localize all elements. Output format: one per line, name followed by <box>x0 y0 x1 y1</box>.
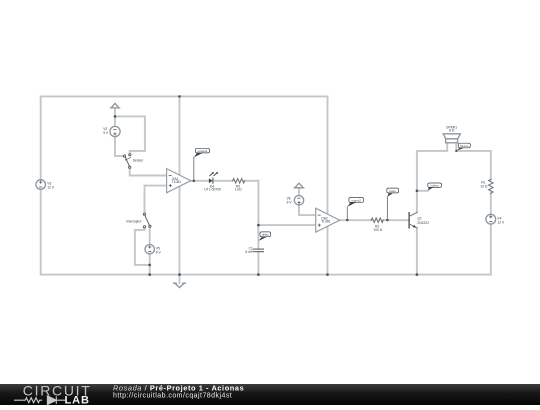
wire node A loop to sensor throw <box>115 116 145 153</box>
junction delay node <box>257 224 260 227</box>
LED D4 <box>209 172 218 183</box>
wire sensor common to OA1 minus input <box>130 168 167 175</box>
wire VCC2 stem <box>298 188 300 196</box>
wire Q1 emitter down to bottom rail <box>416 228 418 275</box>
wire R2 to Q1 base <box>383 219 409 221</box>
svg-text:10 Ω: 10 Ω <box>480 184 488 188</box>
wire V5 bottom <box>149 254 151 275</box>
svg-text:1 kΩ: 1 kΩ <box>235 188 242 192</box>
ground <box>174 283 186 287</box>
svg-text:LAB: LAB <box>65 395 90 405</box>
voltage source V3 12V <box>36 180 46 190</box>
wire V2 bottom to sensor <box>115 137 123 156</box>
svg-text:Q1: Q1 <box>417 217 422 221</box>
junction V5 bypass <box>148 264 151 267</box>
wire delay vertical upper <box>257 181 259 249</box>
svg-text:9 V: 9 V <box>103 131 109 135</box>
wire V4 bottom to bottom rail <box>490 224 492 275</box>
svg-text:http://circuitlab.com/cqajt78d: http://circuitlab.com/cqajt78dkj4st <box>113 392 232 399</box>
op-amp OA1 <box>167 169 191 193</box>
svg-text:100 Ω: 100 Ω <box>373 228 382 232</box>
flag output2 <box>347 198 363 220</box>
junction output1 node <box>193 180 196 183</box>
flag coletor <box>428 183 442 191</box>
junction C1 / bottom rail <box>257 273 260 276</box>
resistor R1 10 <box>489 179 493 193</box>
junction coletor node <box>416 190 419 193</box>
svg-text:8 Ω: 8 Ω <box>449 128 455 132</box>
svg-text:2N2222: 2N2222 <box>417 221 429 225</box>
resistor R3 1k <box>233 179 245 183</box>
switch Sensor <box>123 154 130 169</box>
capacitor C1 <box>253 249 263 252</box>
svg-text:TL081: TL081 <box>321 220 331 224</box>
svg-text:Sirene: Sirene <box>460 144 469 148</box>
svg-text:Sensor: Sensor <box>133 159 144 163</box>
svg-text:12 V: 12 V <box>497 220 505 224</box>
wire bottom rail <box>41 274 491 276</box>
voltage source V4 12V <box>486 214 496 224</box>
wire LED to R3 <box>213 180 233 182</box>
wire delay node to OA2 plus input <box>258 224 315 226</box>
junction node A (VCC1 / V2 / loop) <box>114 115 117 118</box>
svg-text:6 V: 6 V <box>287 200 293 204</box>
svg-text:output1: output1 <box>198 149 208 153</box>
svg-text:base: base <box>390 189 397 193</box>
junction ground / bottom rail <box>178 273 181 276</box>
svg-text:5 mF: 5 mF <box>245 250 253 254</box>
svg-text:Interruptor: Interruptor <box>126 220 142 224</box>
wire OA1 plus input to interruptor <box>145 186 167 213</box>
svg-text:delay: delay <box>262 233 269 237</box>
junction Sirene node <box>455 150 457 152</box>
VCC arrow node B <box>294 183 304 188</box>
wire speaker right pin to right rail <box>456 143 491 179</box>
junction top rail / OA1 supply <box>178 95 181 98</box>
flag output1 <box>194 148 210 180</box>
junction output2 node <box>346 219 349 222</box>
wire VCC1 stem <box>114 108 116 116</box>
svg-text:UTL-00705: UTL-00705 <box>204 188 221 192</box>
VCC arrow node A <box>110 103 120 108</box>
junction base node <box>386 219 389 222</box>
transistor Q1 2N2222 <box>409 212 417 228</box>
voltage source V2 9V <box>110 126 120 136</box>
junction OA2 supply / bottom rail <box>326 273 329 276</box>
wire R3 to delay node <box>245 180 259 182</box>
voltage source V6 6V <box>294 196 303 205</box>
wire interruptor left throw bypass loop <box>135 228 150 265</box>
wire OA2 supply rail vertical <box>327 96 329 274</box>
junction V5 / bottom rail <box>148 273 151 276</box>
svg-text:9 V: 9 V <box>156 250 162 254</box>
voltage source V5 9V <box>145 245 154 254</box>
wire V6 to OA2 minus input <box>299 205 316 215</box>
flag delay <box>259 232 271 241</box>
wire OA1 output <box>191 180 209 182</box>
svg-text:output2: output2 <box>351 198 361 202</box>
wire R1 to V4 <box>490 193 492 214</box>
wire left side upper <box>40 96 42 179</box>
wire OA1 supply rail vertical <box>179 96 181 283</box>
resistor R2 100 <box>371 218 383 222</box>
flag base <box>387 188 399 220</box>
wire top rail <box>41 95 328 97</box>
junction Q1 emitter / bottom rail <box>416 273 419 276</box>
wire delay vertical lower <box>257 252 259 275</box>
wire OA2 output <box>340 219 372 221</box>
speaker SPKR1 <box>443 134 460 143</box>
svg-text:coletor: coletor <box>430 184 439 188</box>
wire interruptor right throw to V5 <box>149 227 151 244</box>
switch Interruptor <box>143 213 151 228</box>
svg-text:TL081: TL081 <box>172 180 182 184</box>
op-amp OA2 <box>316 208 340 232</box>
flag Sirene <box>457 143 471 151</box>
wire left side lower <box>40 189 42 274</box>
svg-text:Rosada / Pré-Projeto 1 - Acion: Rosada / Pré-Projeto 1 - Acionas <box>113 384 244 393</box>
wire coletor flag stub <box>417 190 428 192</box>
wire Q1 collector up to speaker left pin <box>417 143 447 212</box>
wire V2 top <box>114 116 116 126</box>
svg-text:12 V: 12 V <box>47 186 55 190</box>
